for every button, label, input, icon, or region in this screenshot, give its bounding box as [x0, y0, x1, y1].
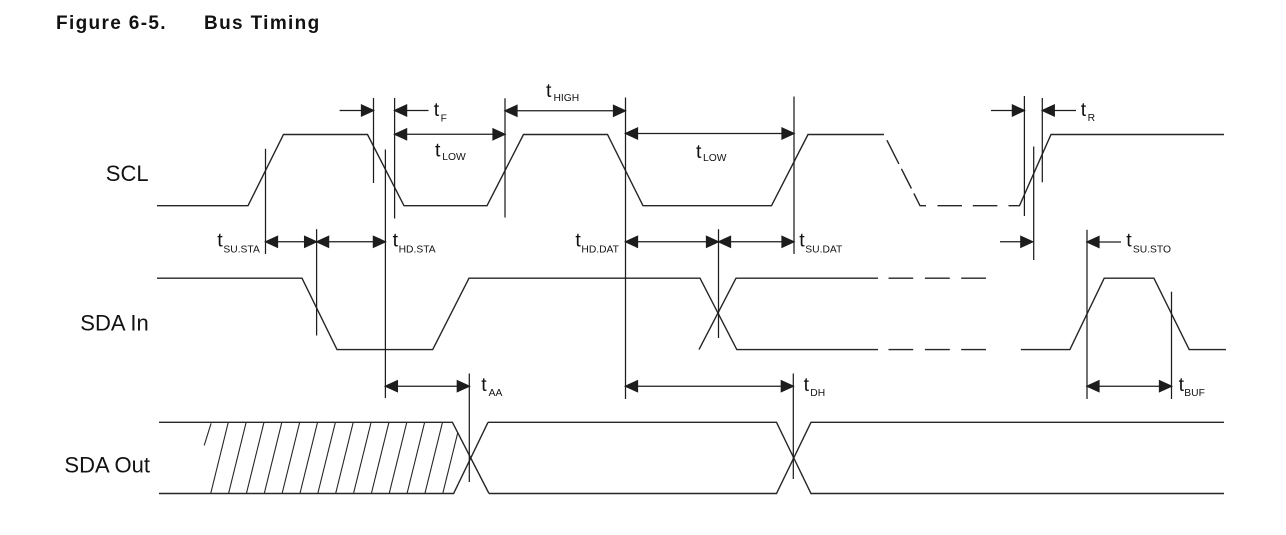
arrow tHIGH — [505, 110, 626, 112]
tick data middle — [718, 229, 720, 338]
arrow tHD.STA — [317, 241, 386, 243]
SDA Out high rail — [159, 422, 489, 493]
svg-text:t: t — [546, 80, 552, 102]
arrow stop single — [1000, 241, 1021, 243]
label tAA — [481, 374, 502, 399]
label tF — [434, 99, 447, 124]
label tDH — [804, 374, 826, 399]
arrow tR right — [1042, 110, 1076, 112]
SDA In dashed low segments — [889, 349, 987, 351]
SDA Out low rail — [159, 422, 488, 493]
arrow tF left — [340, 110, 362, 112]
svg-text:t: t — [804, 374, 810, 396]
tick tAA right — [468, 374, 470, 483]
svg-text:t: t — [217, 230, 223, 252]
svg-text:t: t — [1081, 99, 1087, 121]
label tHD.STA — [393, 230, 436, 256]
svg-text:SCL: SCL — [106, 161, 149, 186]
SDA In stop pulse — [1021, 278, 1226, 349]
arrow tDH — [626, 385, 794, 387]
svg-text:F: F — [441, 113, 447, 124]
SDA In waveform left — [157, 278, 878, 349]
svg-text:t: t — [1126, 230, 1132, 252]
svg-text:R: R — [1088, 113, 1095, 124]
svg-text:t: t — [435, 140, 441, 162]
arrow tSU.STA — [266, 241, 317, 243]
svg-text:SU.STA: SU.STA — [223, 244, 260, 255]
svg-text:DH: DH — [810, 388, 825, 399]
label tSU.DAT — [799, 230, 843, 256]
tick tF left — [373, 98, 375, 183]
svg-text:Bus Timing: Bus Timing — [204, 13, 321, 34]
label tSU.STA — [217, 230, 260, 256]
tick start middle — [316, 229, 318, 335]
tick tLOW right / tHIGH left — [504, 98, 506, 217]
SCL waveform dashed low segments — [938, 205, 998, 207]
tick tSU.STA left — [265, 149, 267, 254]
svg-text:t: t — [696, 141, 702, 163]
tick tF right / tLOW left — [394, 98, 396, 219]
svg-text:LOW: LOW — [442, 152, 466, 163]
svg-text:BUF: BUF — [1184, 388, 1205, 399]
label tHD.DAT — [575, 230, 619, 256]
tick stop middle — [1033, 147, 1035, 261]
arrow tAA — [385, 385, 469, 387]
svg-text:SU.STO: SU.STO — [1133, 244, 1171, 255]
svg-text:HD.STA: HD.STA — [399, 244, 436, 255]
label tR — [1081, 99, 1095, 124]
label tLOW second — [696, 141, 727, 164]
svg-text:t: t — [434, 99, 440, 121]
svg-text:HD.DAT: HD.DAT — [581, 244, 619, 255]
tick tHIGH right / tHD.DAT left / tDH left — [625, 98, 627, 400]
arrow tLOW first — [395, 133, 505, 135]
tick tHD.STA right / tAA left — [384, 150, 386, 399]
arrow tBUF — [1087, 385, 1172, 387]
arrow tSU.STO — [1087, 241, 1121, 243]
svg-text:LOW: LOW — [703, 153, 727, 164]
arrow tF right — [395, 110, 429, 112]
label tHIGH — [546, 80, 579, 104]
tick tR right — [1041, 98, 1043, 182]
arrow tLOW second — [626, 133, 795, 135]
SDA Out middle rails — [488, 422, 1224, 493]
SDA Out hatching — [204, 422, 460, 493]
tick tBUF right — [1171, 292, 1173, 399]
tick tSU.DAT right — [793, 97, 795, 255]
svg-text:Figure 6-5.: Figure 6-5. — [56, 13, 167, 34]
label tSU.STO — [1126, 230, 1171, 256]
label tBUF — [1179, 374, 1205, 399]
svg-text:t: t — [481, 374, 487, 396]
label tLOW first — [435, 140, 466, 164]
SCL waveform solid — [157, 135, 884, 206]
tick tDH right — [792, 374, 794, 480]
dimension arrows — [266, 105, 1172, 392]
SCL waveform dashed falling edge — [887, 140, 926, 206]
SDA In crossover rise — [699, 278, 878, 349]
tick tR left — [1023, 96, 1025, 216]
svg-text:SDA Out: SDA Out — [64, 453, 150, 478]
svg-text:HIGH: HIGH — [554, 93, 580, 104]
arrow tR left — [991, 110, 1013, 112]
SCL waveform final rise and high — [1009, 135, 1225, 206]
svg-text:SDA In: SDA In — [80, 311, 148, 336]
tick tSU.STO / tBUF left — [1086, 230, 1088, 399]
arrow tSU.DAT — [719, 241, 795, 243]
svg-text:AA: AA — [489, 388, 503, 399]
measurement tick lines — [266, 96, 1172, 482]
svg-text:SU.DAT: SU.DAT — [805, 244, 843, 255]
arrow tHD.DAT — [626, 241, 719, 243]
SDA In dashed high segments — [889, 277, 987, 279]
